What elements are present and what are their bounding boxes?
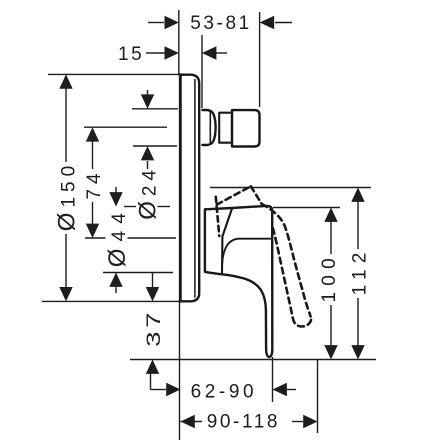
extension line of knob front (53-81 right reference) [259,12,261,107]
dim 100 top arrow [324,208,337,222]
dim 74 vertical line [92,141,94,169]
dim 112 top arrow [351,188,364,202]
extension line O24 top [132,108,178,110]
svg-text:Ø24: Ø24 [134,165,161,220]
svg-text:53-81: 53-81 [190,13,252,34]
dim 74 bottom arrow [86,224,99,238]
handle interior line [222,239,272,265]
dim O44 top arrow (outside) [109,187,122,207]
dim 62-90 right arrow [273,383,297,396]
cartridge sleeve (barrel) [202,110,215,145]
bottom reference line (handle bottom) [130,359,376,361]
dim 100 bottom arrow [324,345,337,359]
dim 74 top arrow [86,127,99,141]
dim 15 right arrow [202,46,227,59]
extension line handle pivot axis (74 bottom reference) [85,237,106,239]
svg-text:Ø44: Ø44 [104,206,131,267]
dim O24 bottom arrow (outside) [141,146,154,169]
extension line below wall plane (62-90 / 90-118 left reference) [179,302,181,440]
svg-text:37: 37 [144,309,165,347]
extension line lever front lower (62-90 right reference) [272,357,274,402]
extension line stem axis (74 top reference) [84,126,167,128]
extension line O44 bottom [103,272,173,274]
extension line O44 top [124,206,136,208]
escutcheon plate wall edge (thick) [179,75,182,302]
extension line plate bottom (O150 bottom) [42,300,180,302]
dim O150 top arrow [59,74,72,88]
dashed open lever tip [293,317,311,327]
dim 90-118 line right segment with arrow [292,415,318,428]
svg-text:90-118: 90-118 [207,411,280,432]
dashed open cap top edge [217,186,251,204]
extension line O24 bottom [133,145,177,147]
extension line plate front (15 right reference) [201,35,203,108]
wall extension line top (53-81 left reference) [178,10,180,74]
svg-text:62-90: 62-90 [191,381,258,402]
dim 112 bottom arrow [351,345,364,359]
dim 15 left arrow [146,46,179,59]
handle outer outline [205,206,272,357]
handle cap left slant edge [222,208,232,273]
dashed open lever inner edge [273,228,293,318]
extension line 100 top (cap top) [273,207,340,209]
extension line 112 top (open lever top) [210,187,371,189]
dim O150 bottom arrow [59,287,72,301]
svg-text:15: 15 [118,44,144,65]
cartridge sleeve inner edge [209,113,211,143]
dim O44 bottom arrow (outside) [109,273,122,294]
dim 62-90 left arrow [151,383,181,396]
cartridge knob [232,110,260,146]
dim O24 top arrow (outside) [141,90,154,109]
extension line 90-118 right reference [317,360,319,433]
dim 112 vertical line [357,200,359,249]
dashed open lever outer edge [262,204,311,317]
dim 53-81 left arrow [148,16,179,29]
dim 100 vertical line [330,220,332,254]
dim 37 bottom arrow (outside) [146,360,159,390]
dim 53-81 right arrow [260,16,292,29]
dashed open cap right edge [251,186,262,204]
dim 90-118 line left segment with arrow [181,415,203,428]
svg-text:100: 100 [319,252,340,302]
cartridge stem [219,113,232,143]
escutcheon plate inner rim line [194,80,196,298]
svg-text:Ø150: Ø150 [54,161,81,231]
escutcheon plate outline [180,75,200,302]
dim 37 top arrow (outside) [146,272,159,301]
svg-text:74: 74 [84,168,105,199]
svg-text:112: 112 [350,246,371,295]
extension line plate top (O150 top) [48,73,180,75]
dim O150 vertical line [65,86,67,162]
dashed open cap left edge [216,197,220,236]
